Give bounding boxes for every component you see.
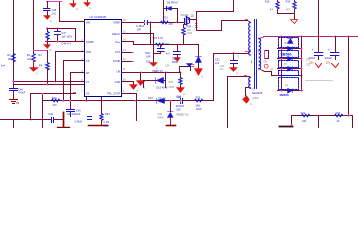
svg-text:1uF 100V: 1uF 100V <box>61 35 72 38</box>
svg-text:R22: R22 <box>301 112 306 115</box>
svg-text:P6KE: P6KE <box>158 117 165 120</box>
resistor R2 <box>32 54 36 62</box>
ground triangle hollow <box>291 20 298 24</box>
wire output rail h36.6 <box>264 36 358 38</box>
svg-text:OUT: OUT <box>115 51 121 54</box>
capacitor C10 electrolytic <box>318 37 320 53</box>
wire snubber top h8.5 <box>164 8 178 10</box>
ground arrow G8 <box>140 73 142 81</box>
wire v213 <box>213 54 215 101</box>
svg-text:+: + <box>311 48 313 52</box>
svg-text:1M: 1M <box>27 58 30 61</box>
svg-text:0 45uF: 0 45uF <box>74 121 82 124</box>
svg-text:PC817 X2: PC817 X2 <box>177 112 189 116</box>
svg-text:UN: UN <box>117 70 121 73</box>
svg-text:CN: CN <box>264 61 268 64</box>
wire drops <box>319 116 353 129</box>
svg-text:1M: 1M <box>8 58 11 61</box>
wire v13.3 low <box>13 120 15 129</box>
resistor R3 <box>46 63 50 71</box>
svg-text:C50: C50 <box>177 96 182 99</box>
svg-text:G: G <box>136 89 138 93</box>
wire ground branch v153.5 <box>153 34 155 63</box>
wire rail h100.8 <box>43 100 214 102</box>
wire startup vertical <box>47 51 49 63</box>
diode D8 feedback box <box>144 81 166 88</box>
diode D1 snubber <box>166 7 168 11</box>
svg-text:220uF: 220uF <box>325 57 333 60</box>
svg-text:47K: 47K <box>169 23 174 26</box>
svg-text:+: + <box>328 48 330 52</box>
svg-text:R32: R32 <box>169 81 174 84</box>
resistor R13 <box>335 114 343 117</box>
wire input line2 vertical <box>33 1 35 54</box>
wire rail h72.5 <box>122 72 181 74</box>
zener D2 chain <box>198 45 200 57</box>
diode D6 dashed box4 <box>279 71 299 76</box>
wire pin h33.5 <box>122 33 154 35</box>
svg-text:PPL_STOP: PPL_STOP <box>107 92 120 95</box>
svg-text:470: 470 <box>52 104 57 107</box>
ground arrow G7 <box>230 68 238 72</box>
diode D4 dashed box2 <box>279 51 299 58</box>
svg-text:C24: C24 <box>165 64 170 67</box>
wire diode ladder verticals <box>282 37 302 91</box>
svg-text:9: 9 <box>259 60 261 64</box>
resistor R9 gate <box>183 36 185 45</box>
wire input line1 vertical <box>13 1 15 89</box>
ground arrow G0b <box>87 1 89 3</box>
svg-text:14P: 14P <box>146 55 151 58</box>
svg-text:1210: 1210 <box>103 125 109 128</box>
ground earth chassis <box>10 100 18 104</box>
svg-text:D12 4148: D12 4148 <box>157 86 168 89</box>
svg-text:R19: R19 <box>286 1 291 4</box>
svg-text:1K8: 1K8 <box>195 105 200 108</box>
svg-text:R40: R40 <box>52 97 57 100</box>
svg-text:R25: R25 <box>163 17 168 20</box>
capacitor C1 X-cap <box>10 89 18 100</box>
wire bus h81 <box>14 81 85 83</box>
svg-text:VFB: VFB <box>86 51 91 54</box>
svg-text:VREF: VREF <box>114 22 121 25</box>
wire v151 <box>150 23 152 45</box>
op-amp U2 PWM controller IC box <box>85 20 122 97</box>
ground arrow G1 <box>44 16 51 20</box>
wire aux top h76.5 <box>228 76 250 78</box>
diode D9 bias box <box>180 67 191 71</box>
diode D5 dashed box3 <box>279 61 299 68</box>
svg-text:25V: 25V <box>176 108 181 111</box>
svg-text:C31: C31 <box>306 59 311 62</box>
wire primary bottom h53 <box>214 53 248 55</box>
transformer T1 aux winding <box>249 78 251 89</box>
svg-text:3: 3 <box>249 48 251 52</box>
svg-text:RT: RT <box>86 72 90 75</box>
resistor R4 <box>52 99 60 102</box>
connector bar red <box>63 113 65 127</box>
svg-text:DELAY: DELAY <box>112 33 120 36</box>
svg-text:SS: SS <box>86 92 90 95</box>
ground diamond flag <box>243 96 250 104</box>
svg-text:EE2525: EE2525 <box>252 91 262 95</box>
svg-text:R33: R33 <box>196 97 201 100</box>
ground bar2 + capacitor plates <box>89 125 97 127</box>
wire out h115.6 <box>292 115 353 117</box>
capacitor C9 snub <box>233 54 235 61</box>
wire ladder rungs <box>278 49 303 91</box>
net label circle <box>264 64 268 68</box>
svg-text:103: 103 <box>146 60 151 63</box>
wire stem red <box>33 62 35 68</box>
wire h44 <box>134 44 199 46</box>
wire drain loop <box>197 1 248 31</box>
svg-text:INV: INV <box>86 22 91 25</box>
svg-text:C 4N: C 4N <box>103 121 109 124</box>
transistor Q1 MOSFET <box>184 19 186 24</box>
svg-text:R27 4 7K: R27 4 7K <box>153 37 164 40</box>
svg-text:CA+: CA+ <box>115 41 120 44</box>
svg-text:R23: R23 <box>336 112 341 115</box>
svg-text:2n2: 2n2 <box>215 62 220 65</box>
wire h93.8 <box>31 93 76 95</box>
node junctions <box>12 80 14 82</box>
svg-text:1206: 1206 <box>187 32 193 35</box>
svg-text:R18: R18 <box>265 1 270 4</box>
svg-text:R31 10: R31 10 <box>158 97 166 100</box>
capacitor C11 electrolytic <box>335 37 337 53</box>
svg-text:330: 330 <box>302 120 307 123</box>
wire v227.5 <box>227 77 229 129</box>
wire pin stub h61 <box>122 61 132 63</box>
svg-text:G: G <box>89 6 91 10</box>
wire v348.5 <box>348 37 350 116</box>
wire pin6 <box>64 61 85 101</box>
wire v165.5 <box>165 73 167 88</box>
svg-text:VO: VO <box>270 69 274 72</box>
svg-text:G: G <box>183 92 185 96</box>
ground arrow G5 <box>174 58 181 62</box>
svg-text:n47: n47 <box>220 68 225 71</box>
resistor R14 chain <box>180 73 182 78</box>
diode D3 dashed box1 <box>279 38 299 48</box>
ground bar <box>98 125 108 127</box>
svg-text:C32: C32 <box>306 64 311 67</box>
wire pin h82 + ground arrow G10 <box>122 82 134 85</box>
ground chevron2 <box>332 64 339 68</box>
svg-text:C40 1000uF: C40 1000uF <box>67 113 81 116</box>
svg-text:D13: D13 <box>148 97 153 100</box>
transformer T1 core <box>255 20 257 89</box>
svg-text:SB560: SB560 <box>280 93 290 97</box>
capacitor C4 <box>67 110 75 117</box>
svg-text:1n4: 1n4 <box>1 64 6 67</box>
ground arrow G0a <box>73 1 75 4</box>
wire h28.4 loop <box>48 29 76 42</box>
svg-text:C46 4n7: C46 4n7 <box>61 43 71 46</box>
svg-text:2n2: 2n2 <box>52 12 57 15</box>
svg-text:1/4W: 1/4W <box>196 108 202 111</box>
ground arrow G4 <box>150 63 158 67</box>
wire aux bottom <box>246 88 250 96</box>
svg-text:D6 FR107: D6 FR107 <box>167 1 179 4</box>
capacitor C3 <box>57 29 59 32</box>
svg-text:C42: C42 <box>48 113 53 116</box>
ground arrow G2 <box>30 68 39 72</box>
svg-text:CS: CS <box>86 60 90 63</box>
svg-text:4.7: 4.7 <box>286 9 290 12</box>
resistor R15 <box>195 99 203 102</box>
diode D7 dashed box5 <box>279 78 299 90</box>
ground arrow G6 <box>195 69 203 76</box>
svg-text:1: 1 <box>251 60 253 64</box>
IC bottom pin stub <box>86 98 88 101</box>
wire pin h93 <box>122 94 137 121</box>
resistor R5 chain <box>101 98 103 114</box>
svg-text:C 45uF: C 45uF <box>136 25 145 28</box>
wire return h75.6 <box>272 75 302 77</box>
svg-text:IRF840: IRF840 <box>181 14 190 17</box>
svg-text:470nF: 470nF <box>18 92 26 95</box>
svg-text:opt: opt <box>284 63 288 66</box>
svg-text:G: G <box>36 71 38 75</box>
svg-text:GND: GND <box>115 81 121 84</box>
wire pink jumper <box>34 50 48 52</box>
ground arrow G3 <box>47 42 49 45</box>
resistor R1 <box>12 54 16 62</box>
wire v30.6 <box>30 94 32 120</box>
wire bus h84 <box>14 84 85 86</box>
svg-text:COMP: COMP <box>86 41 94 44</box>
wire pin top-left h21.6 <box>60 2 85 22</box>
wire snubber right v <box>177 9 179 23</box>
svg-text:SB560: SB560 <box>281 53 292 57</box>
pin numbers red <box>196 24 198 28</box>
wire rail h41.4 VCC <box>46 41 85 43</box>
svg-text:G: G <box>50 19 52 23</box>
svg-text:G: G <box>201 75 203 79</box>
wire join <box>278 14 295 20</box>
svg-text:104: 104 <box>137 28 142 31</box>
svg-text:G: G <box>236 71 238 75</box>
diode D10 on rail <box>157 99 165 104</box>
transformer T1 primary winding <box>248 21 251 54</box>
svg-text:VREF 5V: VREF 5V <box>152 69 163 73</box>
wire pin h41.5 jog <box>122 42 134 45</box>
svg-text:D15: D15 <box>158 113 163 116</box>
svg-text:330pF: 330pF <box>172 61 180 64</box>
svg-text:G: G <box>250 102 252 106</box>
svg-text:R44: R44 <box>105 113 110 116</box>
transformer T1 secondary winding <box>259 39 261 69</box>
svg-text:333: 333 <box>165 43 170 46</box>
wire h119.5 + capacitor C5 series <box>1 119 63 121</box>
svg-text:GND2: GND2 <box>252 97 259 100</box>
wire pin5 <box>56 52 85 82</box>
wire pin7 <box>71 73 85 101</box>
wire v42.5 <box>42 94 44 129</box>
svg-text:opt: opt <box>285 84 289 87</box>
svg-text:4n7: 4n7 <box>166 53 171 56</box>
capacitor C6 <box>145 21 148 25</box>
svg-text:CT: CT <box>86 81 90 84</box>
wire to bar <box>291 116 293 126</box>
ground chevron <box>316 64 322 68</box>
wire v318.5 top <box>318 1 320 37</box>
svg-text:103K: 103K <box>169 86 175 89</box>
svg-text:opt: opt <box>284 42 288 45</box>
svg-text:U2 UC3842B: U2 UC3842B <box>89 15 106 19</box>
resistor R11 <box>294 1 296 2</box>
svg-text:G: G <box>50 48 52 52</box>
svg-text:G: G <box>76 7 78 11</box>
zener D11 chain <box>170 101 172 112</box>
resistor R8 <box>156 43 164 46</box>
resistor R6 <box>47 29 49 32</box>
wire <box>47 70 49 85</box>
wire pink top <box>47 1 62 3</box>
resistor R12 <box>302 114 310 117</box>
wire secondary bottom <box>263 71 272 76</box>
wire pin stub h52 <box>122 52 132 54</box>
wire secondary top to rail <box>263 37 265 38</box>
connector J2 small box <box>265 51 269 59</box>
resistor R10 <box>277 1 279 2</box>
capacitor C8 to ground <box>177 45 179 52</box>
capacitor C7 <box>160 45 162 49</box>
svg-text:2: 2 <box>258 48 260 52</box>
resistor R7 snubber <box>161 21 169 24</box>
capacitor C2 Y-cap <box>47 2 49 8</box>
capacitor C12 series <box>181 99 183 104</box>
wire pin VREF h22.3 <box>122 22 185 24</box>
wire snubber left v <box>163 1 165 23</box>
svg-text:1K: 1K <box>336 120 339 123</box>
ground arrow G9 <box>177 88 185 93</box>
svg-text:4.7: 4.7 <box>270 9 274 12</box>
svg-text:Q1: Q1 <box>191 14 195 17</box>
svg-text:25V: 25V <box>326 61 331 64</box>
svg-text:PGND: PGND <box>113 60 120 63</box>
